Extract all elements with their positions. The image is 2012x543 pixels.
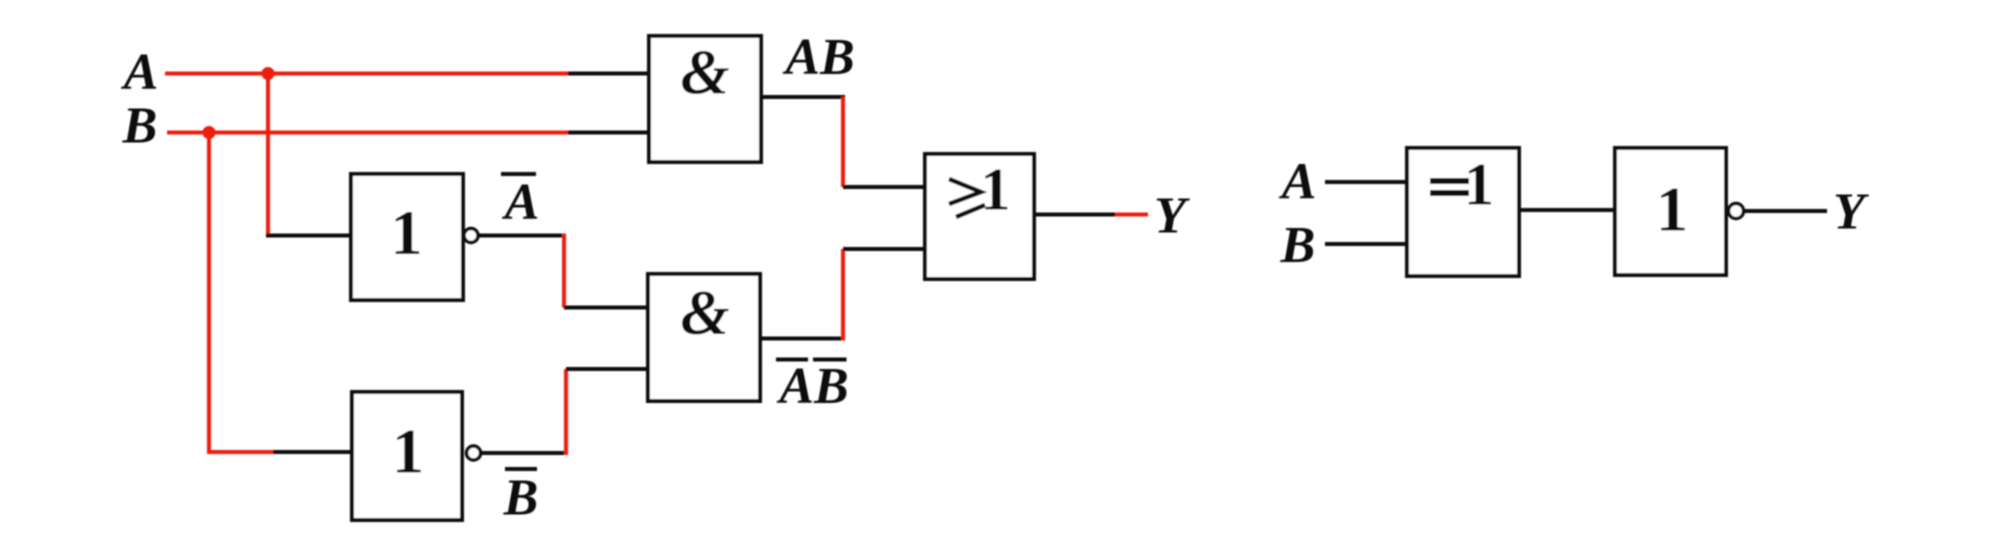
svg-text:A: A <box>502 174 540 231</box>
wire B2 input <box>1325 242 1409 246</box>
U2 output bubble <box>464 229 478 243</box>
or-gate U5 box <box>925 154 1034 279</box>
wire Bbar vertical (red) <box>564 369 568 455</box>
wire B branch vertical (red) <box>207 133 211 455</box>
wire B input to AND1 (black) <box>568 131 651 135</box>
svg-text:&: & <box>680 278 729 348</box>
node A label <box>121 44 159 101</box>
svg-text:1: 1 <box>1464 152 1494 218</box>
svg-text:A: A <box>121 44 159 101</box>
wire AbarBbar to OR (black) <box>843 247 927 251</box>
wire A branch to NOT1 (black) <box>266 234 353 238</box>
wire U3 output (black) <box>481 451 569 455</box>
svg-text:B: B <box>1280 217 1316 274</box>
wire Y output (black) <box>1034 213 1115 217</box>
node Y label <box>1154 188 1190 245</box>
svg-text:AB: AB <box>782 29 854 86</box>
svg-text:1: 1 <box>391 197 423 268</box>
node A2 label <box>1279 154 1317 211</box>
node B label <box>122 98 158 155</box>
junction on B <box>203 126 216 139</box>
U3 output bubble <box>467 446 481 460</box>
svg-text:A: A <box>1279 154 1317 211</box>
U3 label 1 <box>392 416 424 487</box>
wire U1 output (black) <box>761 95 845 99</box>
U5 label >=1 <box>949 157 1011 223</box>
U1 label & <box>680 38 729 108</box>
wire Y2 output <box>1744 209 1827 213</box>
wire AB vertical (red) <box>841 97 845 187</box>
wire Y output tip (red) <box>1115 213 1148 217</box>
wire AbarBbar vertical (red) <box>841 249 845 341</box>
svg-text:&: & <box>680 38 729 108</box>
wire U2 output (black) <box>478 234 567 238</box>
node Bbar label <box>503 469 539 527</box>
svg-text:B: B <box>503 470 539 527</box>
not-gate U3 box <box>352 392 462 520</box>
svg-text:AB: AB <box>776 358 848 415</box>
U4 label & <box>680 278 729 348</box>
svg-text:Y: Y <box>1154 188 1190 245</box>
U7 label 1 <box>1656 174 1688 245</box>
svg-text:1: 1 <box>981 157 1011 223</box>
not-gate U7 box <box>1615 148 1726 275</box>
U2 label 1 <box>391 197 423 268</box>
wire B branch horizontal (red) <box>207 450 273 454</box>
not-gate U2 box <box>351 174 463 300</box>
wire U4 output (black) <box>760 337 845 341</box>
wire B input (red) <box>167 131 568 135</box>
wire A input (red) <box>165 72 568 76</box>
wire A2 input <box>1325 180 1409 184</box>
xor-gate U6 box <box>1407 148 1519 276</box>
and-gate U1 box <box>649 36 761 162</box>
svg-text:1: 1 <box>1656 174 1688 245</box>
U6 label =1 <box>1430 152 1494 218</box>
wire Abar vertical (red) <box>562 234 566 308</box>
wire A input to AND1 (black) <box>568 72 651 76</box>
wire A branch vertical (red) <box>266 74 270 236</box>
wire U6 to U7 <box>1519 208 1617 212</box>
wire Bbar to AND2 (black) <box>566 367 650 371</box>
wire Abar to AND2 (black) <box>564 306 650 310</box>
node AbarBbar label <box>776 358 849 415</box>
U7 output bubble <box>1729 204 1744 219</box>
wire AB to OR (black) <box>843 185 927 189</box>
node Y2 label <box>1833 184 1869 241</box>
svg-text:B: B <box>122 98 158 155</box>
and-gate U4 box <box>648 274 760 401</box>
junction on A <box>262 67 275 80</box>
node B2 label <box>1280 217 1316 274</box>
node AB label <box>782 29 854 86</box>
node Abar label <box>501 174 539 231</box>
wire B branch to NOT2 (black) <box>273 450 354 454</box>
svg-text:Y: Y <box>1833 184 1869 241</box>
svg-text:1: 1 <box>392 416 424 487</box>
